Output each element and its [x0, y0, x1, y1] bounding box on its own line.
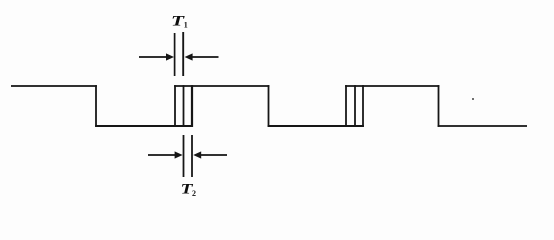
- svg-text:2: 2: [192, 189, 196, 198]
- svg-text:1: 1: [184, 21, 188, 30]
